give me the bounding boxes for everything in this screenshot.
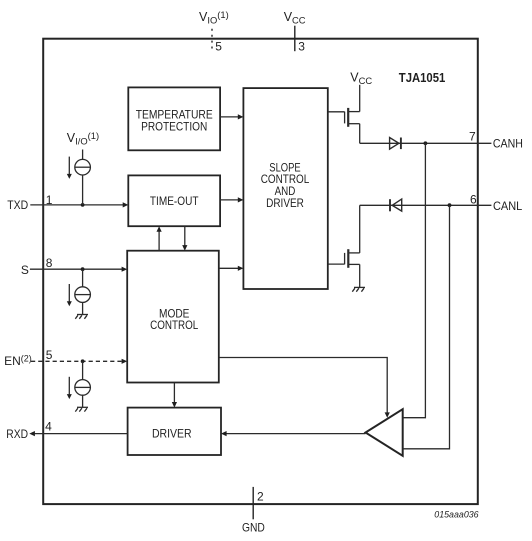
arrow into MODE CONTROL (S): [122, 267, 128, 272]
arrow down into MODE CONTROL: [182, 245, 187, 251]
node junction EN / pull-down: [81, 359, 85, 363]
arrow into MODE CONTROL (EN): [122, 359, 128, 364]
wire MODE CONTROL to TIME-OUT (status): [158, 231, 160, 251]
wire CANL (Q2 drain to pin 6): [360, 204, 492, 206]
svg-text:TXD: TXD: [7, 198, 28, 212]
svg-text:TJA1051: TJA1051: [399, 70, 446, 85]
wire MODE CONTROL to receiver enable: [219, 358, 387, 413]
wire SLOPE CONTROL to Q2 gate: [328, 263, 345, 265]
arrow up into TIME-OUT: [157, 226, 162, 232]
svg-text:CONTROL: CONTROL: [150, 318, 198, 332]
block: MODE CONTROL: [127, 251, 219, 383]
arrow into SLOPE CONTROL (time-out): [238, 197, 244, 202]
block: SLOPE CONTROL AND DRIVER: [243, 88, 327, 289]
wire TIME-OUT to SLOPE CONTROL: [220, 199, 238, 201]
current direction arrow for I2: [68, 284, 70, 302]
svg-text:3: 3: [298, 39, 305, 53]
svg-text:GND: GND: [242, 521, 265, 535]
wire receiver output to DRIVER: [226, 433, 366, 435]
arrow into TIME-OUT: [123, 202, 129, 207]
op-amp U1 (receiver comparator): [366, 409, 403, 456]
node junction TXD / pull-up: [81, 203, 85, 207]
wire TEMPERATURE PROTECTION to SLOPE CONTROL: [220, 116, 238, 118]
block: DRIVER (output driver): [128, 408, 221, 455]
current source I2 (S pull-up): [75, 269, 91, 314]
svg-text:CANL: CANL: [493, 199, 523, 213]
current direction arrow for I3: [68, 377, 70, 395]
svg-text:DRIVER: DRIVER: [152, 426, 192, 440]
svg-text:5: 5: [46, 348, 53, 362]
current source I1 (TXD pull-up): [75, 150, 91, 205]
wire MODE CONTROL to DRIVER: [173, 383, 175, 403]
svg-text:PROTECTION: PROTECTION: [141, 120, 207, 134]
wire VCC to Q1 drain: [359, 85, 361, 112]
diode D1 (CANH): [390, 138, 401, 150]
arrow into SLOPE CONTROL (temp): [238, 114, 244, 119]
svg-text:S: S: [21, 263, 29, 277]
pin 5 tick (VIO, dashed): [211, 29, 213, 51]
transistor Q2 (low-side MOSFET): [345, 253, 360, 288]
ground symbol (below I2): [75, 315, 88, 319]
svg-text:015aaa036: 015aaa036: [434, 509, 479, 520]
svg-text:5: 5: [215, 40, 222, 54]
svg-text:RXD: RXD: [6, 427, 28, 441]
svg-text:7: 7: [469, 129, 476, 143]
svg-text:DRIVER: DRIVER: [266, 196, 304, 210]
pin 2 tick (GND): [252, 487, 254, 519]
arrow into DRIVER (rx): [221, 431, 227, 436]
current source I3 (EN pull-down): [75, 361, 91, 407]
arrow out to RXD: [29, 431, 35, 436]
current direction arrow for I1: [68, 157, 70, 175]
wire CANL to Q2 drain: [359, 205, 361, 253]
block: TEMPERATURE PROTECTION: [128, 87, 220, 150]
wire SLOPE CONTROL to Q1 gate: [328, 111, 345, 113]
svg-text:6: 6: [470, 192, 477, 206]
svg-text:CANH: CANH: [493, 137, 523, 151]
wire TXD input (pin 1 to TIME-OUT): [30, 204, 123, 206]
transistor Q1 (high-side MOSFET): [345, 112, 360, 144]
wire CANH (Q1 source to pin 7): [360, 142, 492, 144]
svg-text:8: 8: [46, 256, 53, 270]
arrow into receiver (enable): [385, 412, 390, 417]
wire EN input (dashed, pin 5 to MODE CONTROL): [31, 360, 122, 362]
ground symbol (Q2 source): [352, 287, 365, 291]
wire S input (pin 8 to MODE CONTROL): [30, 268, 122, 270]
arrow down into DRIVER: [172, 402, 177, 408]
svg-text:4: 4: [45, 420, 52, 434]
wire CANL tap to receiver input: [403, 205, 450, 449]
node junction CANH / receiver tap: [424, 141, 428, 145]
svg-text:2: 2: [257, 489, 264, 503]
wire CANH tap to receiver input: [403, 143, 426, 417]
wire MODE CONTROL to SLOPE CONTROL: [219, 267, 238, 269]
outer IC boundary box: [43, 39, 478, 504]
pin 3 tick (VCC): [294, 26, 296, 52]
node junction S / pull-up: [81, 267, 85, 271]
wire RXD output (DRIVER to pin 4): [35, 433, 128, 435]
wire TIME-OUT to MODE CONTROL: [184, 226, 186, 246]
node junction CANL / receiver tap: [448, 203, 452, 207]
arrow into SLOPE CONTROL (mode): [238, 266, 244, 271]
diode D2 (CANL): [390, 199, 402, 211]
block: TIME-OUT: [128, 175, 220, 226]
svg-text:TIME-OUT: TIME-OUT: [150, 194, 199, 208]
ground symbol (below I3): [75, 407, 88, 411]
